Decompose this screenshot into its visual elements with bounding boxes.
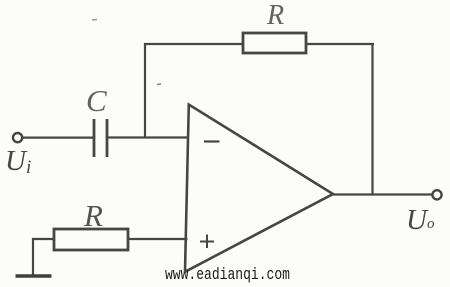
scan speck top left xyxy=(92,19,97,22)
input terminal Ui xyxy=(13,133,22,142)
svg-text:R: R xyxy=(83,198,103,233)
ground xyxy=(16,274,52,277)
capacitor C xyxy=(94,119,107,157)
output terminal Uo xyxy=(432,190,441,199)
op-amp inverting input minus sign xyxy=(204,140,220,142)
wire resistor to op-amp plus input xyxy=(128,238,188,240)
op-amp non-inverting input plus sign xyxy=(200,235,214,249)
resistor R non-inverting xyxy=(54,229,128,250)
svg-text:R: R xyxy=(266,0,284,31)
wire feedback top left xyxy=(144,43,243,45)
resistor R feedback xyxy=(243,33,306,53)
wire feedback top right xyxy=(306,43,374,45)
wire feedback vertical right xyxy=(371,43,373,195)
wire feedback vertical left xyxy=(144,43,146,137)
svg-text:C: C xyxy=(86,83,107,118)
op-amp U1 xyxy=(185,105,333,272)
wire resistor left to ground drop xyxy=(33,239,55,276)
scan speck mid left xyxy=(157,83,161,86)
wire capacitor to op-amp inverting input xyxy=(108,136,189,138)
wire output xyxy=(333,193,432,195)
svg-text:www.eadianqi.com: www.eadianqi.com xyxy=(165,266,290,285)
wire input to capacitor xyxy=(22,137,93,139)
